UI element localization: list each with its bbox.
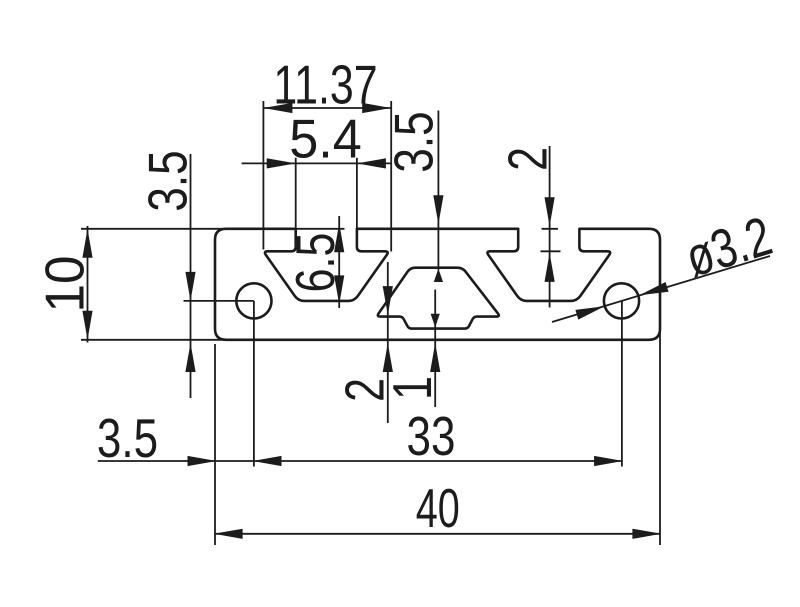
dimension 11.37 slot width [263, 54, 391, 251]
dimension 1 island bottom gap [382, 290, 443, 408]
svg-text:10: 10 [35, 256, 96, 313]
dimension 33 hole spacing [407, 301, 624, 467]
dimension 6.5 slot depth [285, 216, 346, 308]
dimension 40 overall width [214, 300, 662, 545]
svg-text:5.4: 5.4 [289, 108, 362, 170]
hole left o3.2 [236, 283, 271, 318]
dimension 2 island foot to bottom [334, 262, 395, 423]
svg-text:3.5: 3.5 [137, 150, 199, 211]
svg-text:40: 40 [416, 479, 460, 540]
dimension 3.5 hole height from bottom [137, 150, 254, 398]
dimension 3.5 hole offset from left edge [97, 301, 622, 469]
hole right o3.2 [604, 283, 639, 318]
svg-text:33: 33 [407, 405, 456, 467]
svg-text:3.5: 3.5 [97, 407, 158, 469]
svg-text:2: 2 [334, 378, 395, 402]
dimension 5.4 slot mouth width [242, 108, 392, 246]
dimension 3.5 top wall to island [383, 111, 445, 283]
svg-text:3.5: 3.5 [383, 111, 445, 172]
dimension o3.2 hole diameter leader [552, 205, 779, 322]
dimension 2 right slot shoulder depth [497, 146, 560, 308]
svg-text:6.5: 6.5 [285, 233, 346, 293]
center island (core web) [378, 268, 499, 329]
profile outline 40x10 extrusion cross-section [215, 229, 660, 340]
svg-text:2: 2 [497, 147, 558, 171]
svg-text:11.37: 11.37 [273, 54, 377, 115]
dimension 10 profile height [35, 226, 228, 343]
